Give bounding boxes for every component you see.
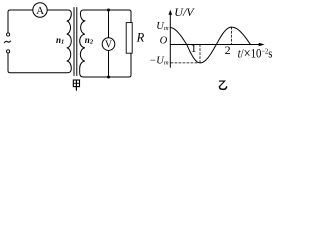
svg-text:V: V [105, 40, 113, 51]
svg-text:1: 1 [191, 41, 197, 55]
graph x-axis with arrow [170, 44, 259, 46]
wire: top-left segment from upper AC terminal up and right to ammeter [8, 10, 33, 33]
resistor R (rectangle) [126, 23, 132, 54]
sine curve U(t) [170, 27, 250, 63]
svg-text:A: A [36, 5, 44, 17]
AC source terminal (upper) [7, 33, 10, 36]
junction node (bottom of voltmeter branch) [107, 76, 110, 79]
dashed marker at t=1 (trough) [199, 45, 201, 63]
voltmeter branch upper wire [108, 10, 110, 38]
voltmeter branch lower wire [108, 50, 110, 77]
svg-text:t/×10−2s: t/×10−2s [238, 45, 273, 61]
svg-text:n2: n2 [85, 35, 94, 46]
transformer primary coil n1 with top lead from ammeter and bottom wire to lower AC terminal [8, 10, 71, 73]
transformer core (right lamination line) [76, 8, 78, 76]
svg-text:U/V: U/V [174, 5, 195, 19]
svg-text:n1: n1 [56, 35, 64, 46]
graph y-axis with arrow [169, 12, 171, 67]
junction node (top of voltmeter branch) [107, 9, 110, 12]
svg-text:O: O [160, 36, 168, 47]
ammeter A [33, 3, 47, 17]
svg-text:−Um: −Um [149, 56, 169, 67]
voltmeter V [102, 38, 115, 51]
svg-text:Um: Um [156, 21, 169, 32]
transformer secondary coil n2 with top lead to right branch [80, 10, 131, 23]
dashed -Um level line [171, 62, 199, 64]
dashed marker at t=2 (peak) [231, 27, 233, 44]
svg-text:R: R [136, 31, 145, 45]
transformer core (left lamination line) [73, 8, 75, 76]
svg-text:2: 2 [225, 43, 231, 57]
AC tilde symbol [4, 41, 10, 43]
axis label t/x10^-2 s [238, 45, 273, 61]
label yi (Chinese character for figure b) [219, 81, 224, 86]
AC source terminal (lower) [7, 50, 10, 53]
label jia (Chinese character for figure a) [73, 80, 79, 91]
secondary coil bumps and bottom lead to right branch through bottom wire [80, 21, 131, 77]
